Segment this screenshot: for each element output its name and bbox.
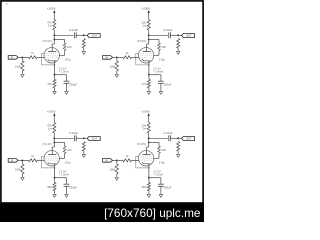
ground (output load, TR) <box>177 50 180 54</box>
svg-text:470: 470 <box>142 82 147 86</box>
ground (grid leak, TR) <box>115 73 118 77</box>
tube grid2 (BR) <box>140 157 152 159</box>
svg-text:OUT: OUT <box>186 138 192 141</box>
wire (TL grid leak to ground) <box>21 71 23 73</box>
wire (TR bypass cap to ground) <box>160 83 162 90</box>
svg-text:IN: IN <box>11 57 14 60</box>
label cathode bias 2.0V/1.6mA (BL) <box>59 170 61 175</box>
wire (TL grid3 to cathode tie) <box>41 53 54 65</box>
ground (cathode resistor, TR) <box>147 90 150 94</box>
svg-text:1.6mA: 1.6mA <box>61 172 69 176</box>
wire (TL input to grid-leak node) <box>18 56 28 58</box>
svg-text:560: 560 <box>47 185 52 189</box>
svg-text:0.22µF: 0.22µF <box>69 131 78 135</box>
connector OUT (TL) <box>87 34 100 38</box>
wire (BL bypass cap to ground) <box>66 186 68 193</box>
connector OUT (TR) <box>182 34 195 38</box>
ground (grid leak, BL) <box>21 176 24 180</box>
svg-text:17kµ: 17kµ <box>65 161 71 165</box>
resistor 470 cathode (TL) <box>54 75 56 80</box>
svg-text:(71.4V): (71.4V) <box>42 142 52 146</box>
svg-text:560: 560 <box>142 185 147 189</box>
wire (BL screen resistor to grid2) <box>64 154 66 159</box>
resistor 1k grid stopper (TR) <box>123 56 132 59</box>
wire (TR cathode to bypass cap) <box>149 74 161 76</box>
svg-text:(72.6V): (72.6V) <box>137 142 147 146</box>
ground (cathode resistor, BR) <box>147 193 150 197</box>
wire (TL plate node to coupling cap) <box>54 34 73 36</box>
wire (TL B+ rail to plate resistor) <box>53 18 55 20</box>
svg-text:100k: 100k <box>109 65 115 69</box>
wire (BL coupling cap to output node) <box>76 137 87 139</box>
wire (TR screen feed) <box>149 39 159 41</box>
svg-text:+200V: +200V <box>47 6 56 10</box>
svg-text:(70.1V): (70.1V) <box>42 39 52 43</box>
tube grid1 (TR) <box>140 56 153 58</box>
wire (TR cathode lead) <box>148 61 150 75</box>
connector OUT (BL) <box>87 137 100 141</box>
svg-text:OUT: OUT <box>186 35 192 38</box>
label cathode bias 2.0V/1.5mA (BR) <box>153 170 155 175</box>
wire (BR cathode resistor to ground) <box>148 191 150 194</box>
ground (bypass cap, TR) <box>159 90 162 94</box>
svg-text:100k: 100k <box>15 168 21 172</box>
node cathode junction (BR) <box>148 177 150 179</box>
tube cathode (TR) <box>142 59 151 61</box>
wire (BL plate node to coupling cap) <box>54 137 73 139</box>
capacitor 220&#181;F cathode bypass (TR) <box>158 80 164 82</box>
svg-text:+200V: +200V <box>141 6 150 10</box>
tube grid1 (BR) <box>140 159 153 161</box>
tube pentode envelope (BR) <box>138 151 153 166</box>
wire (BR grid stopper to grid1) <box>132 159 139 161</box>
wire (BR load resistor to ground) <box>177 151 179 153</box>
wire (TL screen resistor to grid2) <box>64 51 66 56</box>
wire (BL grid stopper to grid1) <box>37 159 44 161</box>
tube cathode (BL) <box>48 162 57 164</box>
resistor 470 cathode (TR) <box>148 75 150 80</box>
resistor output load (TR) <box>177 39 180 49</box>
svg-text:220µF: 220µF <box>69 83 77 87</box>
wire (TR coupling cap to output node) <box>171 34 182 36</box>
resistor 100 screen (BR) <box>158 146 161 154</box>
wire (BR coupling cap to output node) <box>171 137 182 139</box>
node output junction (BL) <box>83 137 85 139</box>
svg-text:(74.9V): (74.9V) <box>137 39 147 43</box>
wire (BR B+ rail to plate resistor) <box>148 121 150 123</box>
ground (cathode resistor, BL) <box>53 193 56 197</box>
svg-text:17kµ: 17kµ <box>159 161 165 165</box>
page margin mark top-left <box>5 2 8 6</box>
svg-text:100k: 100k <box>15 65 21 69</box>
resistor 1k grid stopper (BR) <box>123 159 132 162</box>
wire (BR screen resistor to grid2) <box>158 154 160 159</box>
ground (grid leak, BR) <box>115 176 118 180</box>
wire (BR plate resistor to plate node) <box>148 133 150 143</box>
tube plate (TR) <box>148 40 150 45</box>
connector IN (BR) <box>103 159 113 163</box>
ground (grid leak, TL) <box>21 73 24 77</box>
wire (BL cathode resistor to ground) <box>54 191 56 194</box>
connector IN (BL) <box>8 159 18 163</box>
connector OUT (BR) <box>182 137 195 141</box>
capacitor 0.22&#181;F coupling (TL) <box>73 32 75 38</box>
tube grid1 (TL) <box>45 56 58 58</box>
tube cathode (TL) <box>48 59 57 61</box>
wire (BL cathode to bypass cap) <box>55 177 67 179</box>
wire (TL plate resistor to plate node) <box>53 30 55 40</box>
wire (TR plate node to coupling cap) <box>149 34 168 36</box>
watermark bar <box>0 203 204 222</box>
connector IN (TL) <box>8 56 18 60</box>
resistor output load (BL) <box>82 142 85 152</box>
wire (TR grid leak to ground) <box>116 71 118 73</box>
resistor 100k grid leak (BL) <box>21 160 23 163</box>
node output junction (TL) <box>83 34 85 36</box>
wire (BL grid3 to cathode tie) <box>41 156 54 168</box>
ground (bypass cap, BR) <box>159 193 162 197</box>
node grid-leak junction (TL) <box>22 56 24 58</box>
wire (BR grid leak to ground) <box>116 174 118 176</box>
capacitor 0.22&#181;F coupling (TR) <box>168 32 170 38</box>
wire (BL plate resistor to plate node) <box>53 133 55 143</box>
tube pentode envelope (TR) <box>138 48 153 63</box>
tube grid2 (TR) <box>140 54 152 56</box>
svg-text:230µF: 230µF <box>164 186 172 190</box>
ground (output load, BR) <box>177 153 180 157</box>
resistor 560 cathode (BR) <box>148 178 150 183</box>
svg-text:100k: 100k <box>109 168 115 172</box>
wire (TL cathode resistor to ground) <box>54 88 56 91</box>
wire (TR grid stopper to grid1) <box>132 56 139 58</box>
svg-text:17kµ: 17kµ <box>65 58 71 62</box>
node output junction (BR) <box>177 137 179 139</box>
node grid-leak junction (BR) <box>116 159 118 161</box>
resistor 47k plate load (BL) <box>53 123 56 134</box>
node plate (74.9V) (TR) <box>148 34 150 36</box>
capacitor 230&#181;F cathode bypass (BL) <box>64 183 70 185</box>
wire (TL coupling cap to output node) <box>76 34 87 36</box>
wire (BL grid leak to ground) <box>21 174 23 176</box>
svg-text:100: 100 <box>161 45 166 49</box>
svg-text:100: 100 <box>67 148 72 152</box>
resistor 100 screen (TL) <box>63 43 66 51</box>
wire (TL cathode to bypass cap) <box>55 74 67 76</box>
ground (cathode resistor, TL) <box>53 90 56 94</box>
node plate (71.4V) (BL) <box>53 137 55 139</box>
tube plate (BL) <box>53 143 55 148</box>
wire (TR input to grid-leak node) <box>113 56 123 58</box>
node cathode junction (BL) <box>54 177 56 179</box>
wire (BR grid3 to cathode tie) <box>136 156 149 168</box>
svg-text:100: 100 <box>161 148 166 152</box>
svg-text:+200V: +200V <box>47 109 56 113</box>
tube grid2 (BL) <box>46 157 58 159</box>
wire (BR plate node to coupling cap) <box>149 137 168 139</box>
node grid-leak junction (BL) <box>22 159 24 161</box>
svg-text:0.22µF: 0.22µF <box>163 131 172 135</box>
resistor 560 cathode (BL) <box>54 178 56 183</box>
tube grid2 (TL) <box>46 54 58 56</box>
tube plate (TL) <box>53 40 55 45</box>
svg-text:1.5mA: 1.5mA <box>155 172 163 176</box>
svg-text:OUT: OUT <box>92 138 98 141</box>
wire (BL B+ rail to plate resistor) <box>53 121 55 123</box>
resistor 100 screen (BL) <box>63 146 66 154</box>
wire (TR cathode resistor to ground) <box>148 88 150 91</box>
tube pentode envelope (BL) <box>44 151 59 166</box>
node grid-leak junction (TR) <box>116 56 118 58</box>
ground (bypass cap, BL) <box>65 193 68 197</box>
wire (BL cathode lead) <box>54 164 56 178</box>
ground (output load, TL) <box>82 50 85 54</box>
wire (TR plate resistor to plate node) <box>148 30 150 40</box>
ground (bypass cap, TL) <box>65 90 68 94</box>
connector IN (TR) <box>103 56 113 60</box>
tube grid1 (BL) <box>45 159 58 161</box>
capacitor 220&#181;F cathode bypass (TL) <box>64 80 70 82</box>
wire (TL grid stopper to grid1) <box>37 56 44 58</box>
capacitor 0.22&#181;F coupling (BR) <box>168 135 170 141</box>
svg-text:1.5mA: 1.5mA <box>61 69 69 73</box>
tube grid3 (TL) <box>47 52 58 54</box>
resistor 1k grid stopper (BL) <box>28 159 37 162</box>
wire (TR B+ rail to plate resistor) <box>148 18 150 20</box>
wire (TL load resistor to ground) <box>83 48 85 50</box>
svg-text:17kµ: 17kµ <box>159 58 165 62</box>
label cathode bias 2.1V/1.5mA (TL) <box>59 67 61 72</box>
node cathode junction (TR) <box>148 74 150 76</box>
wire (TR load resistor to ground) <box>177 48 179 50</box>
resistor output load (BR) <box>177 142 180 152</box>
ground (output load, BL) <box>82 153 85 157</box>
label cathode bias 2.1V/1.4mA (TR) <box>153 67 155 72</box>
capacitor 230&#181;F cathode bypass (BR) <box>158 183 164 185</box>
tube grid3 (BR) <box>141 155 152 157</box>
node plate (72.6V) (BR) <box>148 137 150 139</box>
wire (BR bypass cap to ground) <box>160 186 162 193</box>
svg-text:220µF: 220µF <box>164 83 172 87</box>
svg-text:230µF: 230µF <box>69 186 77 190</box>
wire (TR screen resistor to grid2) <box>158 51 160 56</box>
resistor 47k plate load (TL) <box>53 20 56 31</box>
tube grid3 (TR) <box>141 52 152 54</box>
wire (BL input to grid-leak node) <box>18 159 28 161</box>
tube plate (BR) <box>148 143 150 148</box>
svg-text:+200V: +200V <box>141 109 150 113</box>
resistor 22k plate load (BR) <box>147 123 150 134</box>
svg-text:0.22µF: 0.22µF <box>163 28 172 32</box>
svg-text:1.4mA: 1.4mA <box>155 69 163 73</box>
node output junction (TR) <box>177 34 179 36</box>
svg-text:IN: IN <box>105 160 108 163</box>
svg-text:0.22µF: 0.22µF <box>69 28 78 32</box>
svg-text:470: 470 <box>47 82 52 86</box>
resistor 100k grid leak (TR) <box>116 57 118 60</box>
resistor 100 screen (TR) <box>158 43 161 51</box>
wire (BR screen feed) <box>149 142 159 144</box>
svg-text:100: 100 <box>67 45 72 49</box>
wire (BR input to grid-leak node) <box>113 159 123 161</box>
resistor 22k plate load (TR) <box>147 20 150 31</box>
resistor 1k grid stopper (TL) <box>28 56 37 59</box>
node cathode junction (TL) <box>54 74 56 76</box>
wire (BL screen feed) <box>54 142 64 144</box>
wire (BL load resistor to ground) <box>83 151 85 153</box>
tube pentode envelope (TL) <box>44 48 59 63</box>
resistor output load (TL) <box>82 39 85 49</box>
tube grid3 (BL) <box>47 155 58 157</box>
wire (TR grid3 to cathode tie) <box>136 53 149 65</box>
wire (BR cathode lead) <box>148 164 150 178</box>
resistor 100k grid leak (TL) <box>21 57 23 60</box>
node plate (70.1V) (TL) <box>53 34 55 36</box>
wire (BR cathode to bypass cap) <box>149 177 161 179</box>
wire (TL bypass cap to ground) <box>66 83 68 90</box>
tube cathode (BR) <box>142 162 151 164</box>
svg-text:[760x760] uplc.me: [760x760] uplc.me <box>104 206 201 220</box>
border frame of scanned page <box>1 1 203 203</box>
svg-text:OUT: OUT <box>92 35 98 38</box>
wire (TL cathode lead) <box>54 61 56 75</box>
capacitor 0.22&#181;F coupling (BL) <box>73 135 75 141</box>
resistor 100k grid leak (BR) <box>116 160 118 163</box>
svg-text:IN: IN <box>11 160 14 163</box>
svg-text:IN: IN <box>105 57 108 60</box>
wire (TL screen feed) <box>54 39 64 41</box>
